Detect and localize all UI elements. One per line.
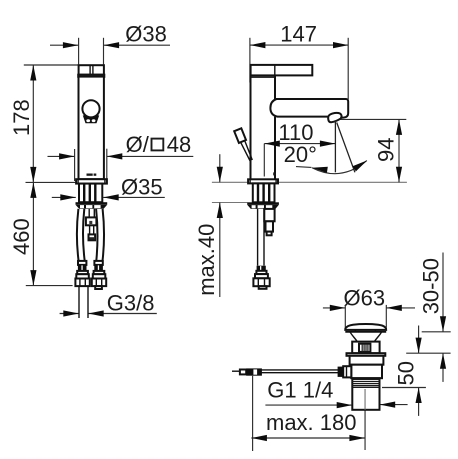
dim G1 1/4 leader <box>265 404 407 407</box>
right hose sleeve <box>94 261 102 265</box>
dim 110 <box>264 144 335 177</box>
side hose hex nut G3/8 <box>253 278 269 286</box>
neck <box>350 332 357 342</box>
body top lip <box>78 75 104 77</box>
side hose <box>257 209 259 266</box>
arrowhead dim max.40 bottom <box>217 203 223 219</box>
side hose crimp band <box>257 266 266 271</box>
left hose crimp band <box>78 265 87 271</box>
counter top line <box>212 181 407 183</box>
svg-text:max.40: max.40 <box>194 224 219 296</box>
svg-text:Ø/: Ø/ <box>126 132 150 157</box>
handle bar <box>251 65 313 76</box>
arrowhead dim 94 bottom <box>396 167 402 183</box>
dim 178 extension <box>24 64 79 66</box>
arrowhead dim O38 right <box>104 42 120 48</box>
knob circle <box>82 100 99 117</box>
arrowhead dim 30-50 top <box>440 316 446 332</box>
arrowhead dim 110 right <box>320 141 336 147</box>
base plate end ticks <box>77 179 79 183</box>
svg-text:50: 50 <box>394 361 419 385</box>
base plate <box>76 179 107 183</box>
rod end connector <box>240 370 246 375</box>
dim 460 line <box>32 182 34 285</box>
20 deg arc <box>312 161 367 174</box>
arrowhead dim O63 right <box>386 305 402 311</box>
handle cap joint lines <box>89 65 91 74</box>
stream angled line <box>337 123 355 173</box>
lever shaft <box>241 143 251 163</box>
horn nut slots front <box>80 205 84 208</box>
spout <box>270 99 348 118</box>
svg-text:94: 94 <box>374 138 399 162</box>
shank thread bars front <box>84 184 95 202</box>
cap rim ticks <box>354 330 356 332</box>
rod clamp block <box>86 217 97 225</box>
right hose <box>96 209 97 261</box>
mid body <box>350 356 384 365</box>
body <box>79 77 104 180</box>
arrowhead dim 30-50 bottom <box>440 353 446 369</box>
arrowhead dim 178 bottom <box>30 167 36 183</box>
logo front <box>87 174 93 176</box>
arrowhead dim max.180 right <box>349 435 365 441</box>
label O/sq48 square glyph <box>152 139 164 151</box>
lower body <box>351 365 382 379</box>
rod lower block <box>89 234 96 240</box>
rod wire tip <box>232 370 240 372</box>
tailpiece centerline <box>364 389 366 410</box>
svg-text:G1 1/4: G1 1/4 <box>267 378 333 403</box>
svg-text:178: 178 <box>9 99 34 136</box>
dim 94 <box>340 119 406 182</box>
knob collar <box>83 115 99 123</box>
dim Ø/□48 <box>48 149 194 181</box>
arrowhead dim 50 bottom <box>416 388 422 404</box>
left hose <box>77 209 79 261</box>
arrowhead dim 50 top <box>416 338 422 354</box>
arrowhead 20deg arc right <box>353 160 368 171</box>
arrowhead dim max.40 top <box>217 167 223 183</box>
aerator beak <box>328 113 341 122</box>
mounting plane front <box>26 181 76 183</box>
dim Ø38 extension lines <box>50 38 170 65</box>
svg-text:max. 180: max. 180 <box>266 410 357 435</box>
svg-text:48: 48 <box>167 132 191 157</box>
svg-text:Ø35: Ø35 <box>121 174 163 199</box>
arrowhead dim G3/8 right <box>88 310 104 316</box>
dim max.180 <box>251 376 365 451</box>
arrowhead dim 147 left <box>250 42 266 48</box>
counter bottom line <box>212 202 248 204</box>
base plate side <box>248 179 278 183</box>
arrowhead dim O48 left <box>59 153 75 159</box>
dim G3/8 <box>60 313 157 315</box>
arrowhead dim O63 left <box>330 305 346 311</box>
lever window with ribs <box>359 344 370 352</box>
svg-text:30-50: 30-50 <box>419 258 444 314</box>
arrowhead dim O38 left <box>63 42 79 48</box>
plug cap dome <box>345 324 386 330</box>
arrowhead dim 178 top <box>30 65 36 81</box>
svg-text:147: 147 <box>280 22 317 47</box>
arrowhead dim 460 top <box>30 182 36 198</box>
shank thread bars side <box>258 184 269 203</box>
arrowhead dim 94 top <box>396 119 402 134</box>
arrowhead dim O48 right <box>107 153 123 159</box>
pop-up rod front <box>88 209 90 218</box>
dim 50 <box>382 326 451 416</box>
horn nut slots side <box>252 205 256 208</box>
svg-text:Ø38: Ø38 <box>125 21 167 46</box>
dim Ø35 <box>52 196 165 198</box>
lever grip <box>234 128 246 143</box>
cartridge ring line <box>251 76 276 78</box>
svg-text:Ø63: Ø63 <box>344 285 386 310</box>
logo side <box>273 172 276 175</box>
svg-text:20°: 20° <box>284 142 317 167</box>
dim 30-50 <box>422 253 451 382</box>
right hose hex nut G3/8 <box>92 279 106 287</box>
dim 147 <box>250 38 349 99</box>
pop rod housing <box>264 209 274 221</box>
rod (goes under port) <box>246 369 340 371</box>
arrowhead leader G1 1/4 right <box>380 402 396 408</box>
G3/8 threaded tube <box>78 286 80 318</box>
arrowhead dim G3/8 left <box>63 310 79 316</box>
horn nut <box>76 202 108 205</box>
right hose crimp band <box>94 265 103 271</box>
arrowhead dim 460 bottom <box>30 270 36 286</box>
left hose sleeve <box>78 261 86 265</box>
20 deg leader <box>296 166 312 169</box>
shank threads <box>79 184 102 203</box>
ball joint port <box>343 366 351 377</box>
tailpiece <box>352 378 379 410</box>
svg-text:460: 460 <box>9 218 34 255</box>
shank side <box>253 183 275 202</box>
flange <box>347 353 386 356</box>
arrowhead 20deg arc left <box>312 167 328 173</box>
rod clamp black block <box>246 368 262 375</box>
dim Ø63 <box>323 305 415 328</box>
left hose hex nut G3/8 <box>75 279 89 287</box>
arrowhead dim O35 left <box>60 194 76 200</box>
arrowhead dim O35 right <box>103 194 119 200</box>
horn nut side <box>247 202 279 205</box>
tailpiece thread lines <box>352 379 379 387</box>
stream vertical ref <box>334 120 336 172</box>
arrowhead dim max.180 left <box>251 435 267 441</box>
svg-text:G3/8: G3/8 <box>107 291 155 316</box>
drain body upper <box>352 342 379 354</box>
dim max.40 <box>219 154 221 297</box>
arrowhead dim 110 left <box>264 141 280 147</box>
arrowhead dim 147 right <box>333 42 349 48</box>
handle cap <box>79 65 104 75</box>
arrowhead leader G1 1/4 left <box>337 402 353 408</box>
body column <box>250 75 252 179</box>
